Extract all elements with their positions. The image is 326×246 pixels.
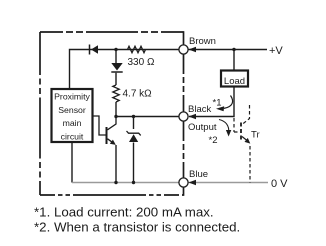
border dashed segment Black to Blue xyxy=(183,121,185,178)
svg-text:Output: Output xyxy=(188,122,217,133)
curved arrow for *2 xyxy=(219,120,231,137)
wire output node line xyxy=(116,116,179,118)
terminal Black xyxy=(179,112,188,121)
junction dot top diode chain xyxy=(114,48,117,51)
wire load bottom to black terminal xyxy=(189,87,234,117)
sensor outline dashed border bottom xyxy=(40,194,184,196)
arrowhead into Blue xyxy=(189,180,197,186)
zener diode xyxy=(127,131,141,142)
wire diode/resistor chain vertical xyxy=(115,50,117,117)
svg-text:*2: *2 xyxy=(209,135,218,146)
svg-text:0 V: 0 V xyxy=(271,178,288,190)
diode D1 reverse-protection (points left) xyxy=(90,45,99,55)
svg-text:+V: +V xyxy=(269,45,283,57)
junction dot zener at 0V xyxy=(132,181,135,184)
junction dot zener at node line xyxy=(132,115,135,118)
wire load top drop xyxy=(233,50,235,71)
svg-text:Sensor: Sensor xyxy=(58,105,86,115)
wire zener vertical xyxy=(133,117,135,183)
transistor Tr (dashed, external) xyxy=(234,105,250,183)
arrowhead into Brown xyxy=(189,47,197,53)
junction dot load at +V xyxy=(232,48,235,51)
wire top rail with corner down into box xyxy=(70,50,180,90)
border dashed segment Brown to Black xyxy=(183,54,185,112)
wire +V rail xyxy=(189,49,268,51)
svg-text:main: main xyxy=(63,118,82,128)
border stub to Blue terminal xyxy=(183,188,185,196)
resistor 4.7 kohm xyxy=(113,85,119,102)
load box xyxy=(221,71,248,87)
junction dot 4.7k at node line xyxy=(114,115,117,118)
junction dot emitter at 0V xyxy=(114,181,117,184)
svg-text:*1: *1 xyxy=(213,98,222,109)
svg-text:*1. Load current: 200 mA max.: *1. Load current: 200 mA max. xyxy=(34,205,214,220)
svg-text:*2. When a transistor is conne: *2. When a transistor is connected. xyxy=(34,220,240,235)
arrowhead into Black xyxy=(189,114,197,120)
svg-text:Proximity: Proximity xyxy=(54,92,90,102)
svg-text:circuit: circuit xyxy=(61,131,84,141)
svg-text:Black: Black xyxy=(188,104,211,115)
sensor outline dashed border left xyxy=(39,32,41,195)
resistor 330 ohm xyxy=(128,46,146,52)
wire box bottom drop xyxy=(71,142,73,183)
terminal Blue xyxy=(179,178,188,187)
svg-text:Load: Load xyxy=(224,76,245,87)
curved arrow for *1 xyxy=(216,96,233,112)
svg-text:Brown: Brown xyxy=(189,36,216,47)
diode D2 (points down) xyxy=(111,63,122,72)
wire 0V gray rail xyxy=(72,182,268,184)
svg-text:330 Ω: 330 Ω xyxy=(128,57,155,68)
proximity sensor main circuit box xyxy=(52,89,93,142)
wire emitter down xyxy=(115,145,117,183)
svg-text:Tr: Tr xyxy=(251,130,260,141)
svg-text:4.7 kΩ: 4.7 kΩ xyxy=(123,89,153,100)
sensor outline dashed border top xyxy=(40,31,184,33)
svg-text:Blue: Blue xyxy=(189,169,208,180)
terminal Brown xyxy=(179,45,188,54)
transistor Q1 (NPN) xyxy=(93,116,116,145)
border stub to Brown terminal xyxy=(183,31,185,45)
